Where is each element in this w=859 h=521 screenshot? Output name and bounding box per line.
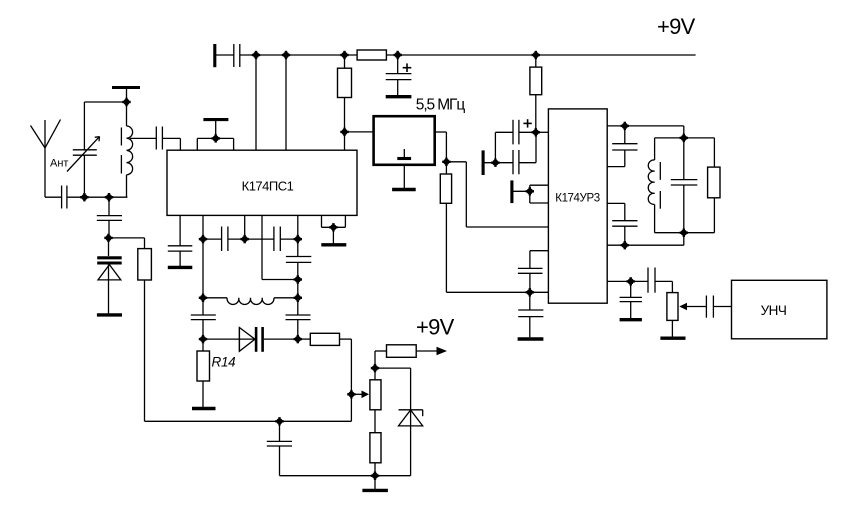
capacitor audio coupling (648, 268, 672, 293)
wire to U2 lower pin (446, 291, 548, 293)
ground below R14 (192, 407, 216, 410)
node varicap-top (104, 234, 112, 242)
inductor L3 tank (648, 138, 654, 233)
wire filter to ground (403, 165, 405, 188)
wire rail left stub (216, 54, 234, 56)
wire wiper arrow (351, 391, 369, 399)
node tank2 top (680, 134, 688, 142)
wire variable cap branch (83, 102, 85, 197)
node U1 osc (340, 128, 348, 136)
wire U1 pin2 (202, 215, 204, 239)
capacitor tank2 (671, 138, 698, 233)
capacitor node to ground (518, 292, 543, 337)
ground below U1 bracket (321, 243, 346, 246)
ground below volume pot (660, 320, 685, 338)
wire diode cap to node (264, 338, 298, 340)
potentiometer volume (667, 293, 678, 321)
capacitor U2 parallel lower (483, 134, 536, 175)
capacitor audio to ground (620, 281, 642, 318)
resistor above U1 osc pin (338, 68, 352, 97)
capacitor bottom middle (267, 421, 292, 475)
filter inner terminal (397, 149, 411, 159)
node row1-l (199, 235, 207, 243)
node rail-e (532, 51, 540, 59)
resistor tuning voltage (138, 249, 152, 280)
svg-text:К174ПС1: К174ПС1 (242, 179, 294, 194)
capacitor after diode (256, 327, 263, 352)
wire U2 out bottom (607, 233, 684, 246)
wire coil tap (130, 137, 156, 139)
wire rail to resistor (344, 55, 346, 68)
ground below rail electrolytic (386, 95, 412, 98)
resistor divider lower (370, 410, 381, 476)
node audio out (627, 277, 635, 285)
wire bottom long (145, 420, 352, 422)
node U1 top bracket (212, 134, 220, 142)
diode VD row3 (239, 328, 255, 352)
node row3-r (294, 335, 302, 343)
op IC U1 K174PS1 box (167, 150, 357, 215)
node tank-bm (105, 193, 113, 201)
capacitor right chain upper (286, 239, 311, 279)
block UNCH (732, 280, 827, 339)
terminal bar above tank (112, 88, 140, 103)
wire node to tuning resistor (109, 238, 145, 249)
wire zener branch (375, 368, 411, 410)
wire U1 pin4 bend (262, 215, 298, 279)
wire +9V rail right part (386, 54, 695, 56)
node U2 out top (621, 122, 629, 130)
ground below audio cap (620, 318, 642, 321)
wire U1 top bracket (197, 138, 233, 150)
wire tank bottom (67, 196, 128, 198)
zener diode (399, 410, 423, 476)
node U2 decouple (532, 128, 540, 136)
node row2-l (199, 294, 207, 302)
svg-text:УНЧ: УНЧ (761, 303, 787, 318)
node U2 fork (526, 187, 534, 195)
wire U1 bottom bracket (322, 215, 346, 243)
node row2-r (294, 294, 302, 302)
node rail-d (394, 51, 402, 59)
terminal bar U2 caps (482, 150, 485, 175)
resistor on rail (357, 50, 386, 60)
electrolytic capacitor at rail node d (386, 55, 412, 95)
wire tank top rail (655, 137, 715, 139)
wire tank top (84, 101, 126, 103)
capacitor left chain lower (191, 298, 216, 339)
variable capacitor tuning (67, 137, 100, 172)
antenna (31, 120, 61, 198)
capacitor U1 pin1 to ground (168, 215, 193, 266)
wire left chain (202, 239, 204, 298)
wire parallel cap left leg (494, 132, 496, 162)
terminal bar U2 fork (510, 180, 513, 203)
varicap diode (97, 238, 122, 314)
node rail-b (282, 51, 290, 59)
wire down to wiper node (350, 339, 352, 421)
node U2 lower left (526, 288, 534, 296)
wire bottom return (280, 475, 411, 477)
node filter out (442, 158, 450, 166)
wire antenna bottom (45, 196, 62, 198)
electrolytic capacitor U2 top (495, 120, 536, 145)
core of L3 (659, 162, 661, 209)
wire filter output (435, 132, 447, 162)
svg-text:+9V: +9V (657, 14, 696, 39)
wire node to U2 pin (536, 131, 549, 133)
wire filter to U2 input (446, 162, 548, 227)
terminal bar above U1 (203, 120, 228, 139)
wire tuning resistor down (144, 280, 146, 421)
wire U1 supply pin b (285, 55, 287, 150)
inductor L tank (127, 102, 133, 197)
capacitor right chain lower (286, 298, 311, 339)
node rail-c (340, 51, 348, 59)
terminal bar at +9V rail left end (213, 44, 216, 67)
wire U2 out top (607, 126, 684, 138)
op IC U2 K174UR3 box (548, 109, 607, 303)
wire right chain (297, 280, 299, 298)
node bottom ground (371, 472, 379, 480)
resistor after row3 (298, 333, 352, 345)
wire row3 (203, 338, 255, 340)
svg-text:К174УР3: К174УР3 (555, 193, 599, 205)
resistor tank2 (708, 138, 720, 233)
capacitor below tank (97, 197, 122, 238)
wire osc node to filter (345, 131, 374, 133)
node row1-m (241, 235, 249, 243)
capacitor to UNCH (706, 296, 731, 318)
resistor rail to U2 (530, 55, 542, 132)
node wiper (347, 390, 355, 398)
ground below varicap (97, 313, 122, 316)
node bend-r (294, 275, 302, 283)
filter 5.5MHz box (374, 116, 435, 165)
core of tank inductor (120, 128, 122, 174)
node tank-bl (80, 193, 88, 201)
capacitor antenna coupling (62, 186, 67, 209)
svg-text:Ант: Ант (50, 158, 68, 170)
plus sign of U2 electrolytic (523, 119, 531, 127)
capacitor coupling to IC (156, 127, 162, 150)
wire +9V rail (240, 54, 357, 56)
capacitor U2 pin to node (518, 251, 549, 293)
node rail-a (252, 51, 260, 59)
ground below filter (392, 188, 416, 191)
node tank-top (122, 98, 130, 106)
capacitor row1 left (203, 227, 245, 252)
wire resistor to osc node (344, 98, 346, 151)
wire U2 audio out (607, 280, 648, 282)
wire fork to U2 pins (512, 185, 549, 203)
node parallel caps (491, 159, 499, 167)
svg-text:R14: R14 (212, 355, 236, 370)
ground bottom middle (362, 476, 388, 491)
node bottom cap (275, 417, 283, 425)
ground below U2 node (518, 337, 544, 340)
resistor filter load (440, 162, 451, 292)
node U2 out bottom (621, 241, 629, 249)
capacitor U2 right upper (607, 126, 637, 167)
wire U1 supply pin a (255, 55, 257, 150)
resistor to +9V arrow (375, 345, 447, 368)
wire tank bottom rail (655, 232, 715, 234)
inductor L2 between row2 nodes (203, 298, 298, 305)
ground below U1 pin1 (168, 266, 193, 269)
wire U1 pin3 (244, 215, 246, 239)
wire U1 pin5 (297, 215, 299, 239)
wiper arrow volume (679, 303, 706, 311)
resistor R14 (197, 339, 210, 407)
capacitor at rail left end (234, 44, 240, 67)
node tank2 bottom (680, 229, 688, 237)
capacitor U2 right lower (607, 203, 637, 245)
capacitor row1 right (245, 227, 298, 252)
plus sign of rail electrolytic (403, 63, 412, 72)
node U1 bottom bracket (329, 223, 337, 231)
node row1-r (294, 235, 302, 243)
node row3-l (199, 335, 207, 343)
svg-text:+9V: +9V (416, 315, 455, 340)
node divider top (371, 364, 379, 372)
wire cap to IC pin (162, 138, 180, 150)
svg-text:5,5 МГц: 5,5 МГц (416, 97, 466, 114)
potentiometer body (370, 368, 381, 410)
